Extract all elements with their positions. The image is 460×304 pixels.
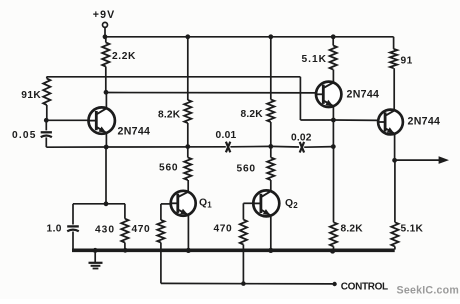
wire: y147 between C3 and node271 [230,145,270,147]
node: T2 emitter / T3 base junction [331,118,336,123]
ground [89,250,103,268]
node: rail-R3 junction [185,34,190,39]
svg-text:91: 91 [401,56,413,67]
svg-text:CONTROL: CONTROL [341,281,388,292]
svg-text:SeekIC.com: SeekIC.com [397,285,460,297]
resistor R7 8.2K (Q2 collector load) [267,37,274,147]
node: emitter RC junction [104,201,109,206]
wire: coupling line to T2 base [106,92,323,94]
wire: y147 C4 to T2 emitter branch [304,146,333,149]
wire: emitter line y147 left part [46,146,106,148]
resistor R10 5.1K [330,37,337,83]
node: 430-ground junction [123,248,128,253]
svg-text:8.2K: 8.2K [158,110,181,121]
control terminal [332,282,336,286]
wire: base lead to T1 [46,119,88,121]
wire: T1 emitter tail down to RC [105,147,107,204]
svg-text:2N744: 2N744 [347,89,380,101]
node: Q2 emitter ground junction [268,248,273,253]
node: ground symbol junction [93,248,98,253]
svg-text:470: 470 [214,224,233,235]
wire: +9V rail [104,36,393,38]
resistor R6 430 [121,204,128,250]
resistor R1 2.2K [102,37,109,93]
svg-text:430: 430 [95,225,115,236]
+9V supply terminal [103,22,108,36]
transistor Q1 [171,191,196,216]
svg-text:0.05: 0.05 [12,130,37,141]
wire: y147 between node271 and C4 [271,145,299,148]
resistor R13 5.1K (T3 emitter) [391,160,398,249]
svg-text:2N744: 2N744 [118,126,151,138]
wire: feedback line (91K top) to T2 emitter node [47,77,334,120]
wire: RC top wire [73,203,125,205]
wire: T1 collector to node [105,92,107,108]
svg-text:470: 470 [132,224,151,235]
capacitor C2 1.0 [67,204,79,249]
svg-text:5.1K: 5.1K [401,224,424,235]
output arrow [395,156,449,164]
wire: Q1 base lead [161,203,171,205]
node: rail-R1 junction [103,34,108,39]
node: R12 ground junction [330,248,335,253]
svg-text:1.0: 1.0 [47,224,62,235]
svg-text:0.01: 0.01 [216,130,237,141]
resistor R2 91K [43,77,50,121]
node: R3/R4/C3 junction [185,144,190,149]
node: R9-control junction [241,281,246,286]
wire: T2 emitter node to T3 base [333,119,379,121]
ground bus [72,249,395,253]
transistor 2N744 second [316,82,341,107]
svg-text:91K: 91K [21,90,41,101]
node: T2 emitter / R12 junction [331,144,336,149]
wire: Q2 base lead [243,202,253,204]
transistor 2N744 third [378,110,403,135]
wire: Q2 emitter to ground bus [270,216,272,251]
resistor R4 560 [184,147,191,193]
transistor 2N744 first stage [89,107,115,133]
node: Q1 emitter ground junction [186,248,191,253]
resistor R3 8.2K (Q1 collector load) [184,37,191,147]
node: rail-R7 junction [268,34,273,39]
node: T1 emitter junction [104,145,109,150]
wire: control line [161,282,333,285]
resistor R11 91 [390,37,397,111]
node: output junction [392,158,397,163]
resistor R5 470 (Q1 base to control) [157,204,164,284]
resistor R8 560 [267,146,274,192]
node: rail-R10 junction [331,34,336,39]
svg-text:8.2K: 8.2K [241,109,264,120]
wire: T3 emitter down [394,134,396,161]
resistor R9 470 (Q2 base to control) [240,203,247,283]
svg-text:8.2K: 8.2K [341,224,364,235]
svg-text:+9V: +9V [93,9,115,21]
svg-text:2.2K: 2.2K [112,51,136,62]
svg-text:2N744: 2N744 [408,116,441,128]
node: R7/R8 junction [268,144,273,149]
node: T1 base node [44,118,49,123]
wire: emitter line y147 to C3 [106,146,226,148]
capacitor C4 0.02 [300,142,304,153]
capacitor C3 0.01 [226,142,230,153]
svg-text:5.1K: 5.1K [302,54,328,65]
node: T1 collector / coupling junction [104,90,109,95]
resistor R12 8.2K (T2 emitter) [330,147,337,250]
wire: T1 emitter down [105,133,107,147]
wire: Q1 emitter to ground bus [187,214,189,250]
capacitor C1 0.05 [41,120,52,147]
svg-text:560: 560 [237,164,256,175]
wire: T2 emitter down [332,106,334,147]
transistor Q2 [253,190,279,216]
svg-text:560: 560 [159,163,178,174]
svg-text:0.02: 0.02 [291,133,312,144]
